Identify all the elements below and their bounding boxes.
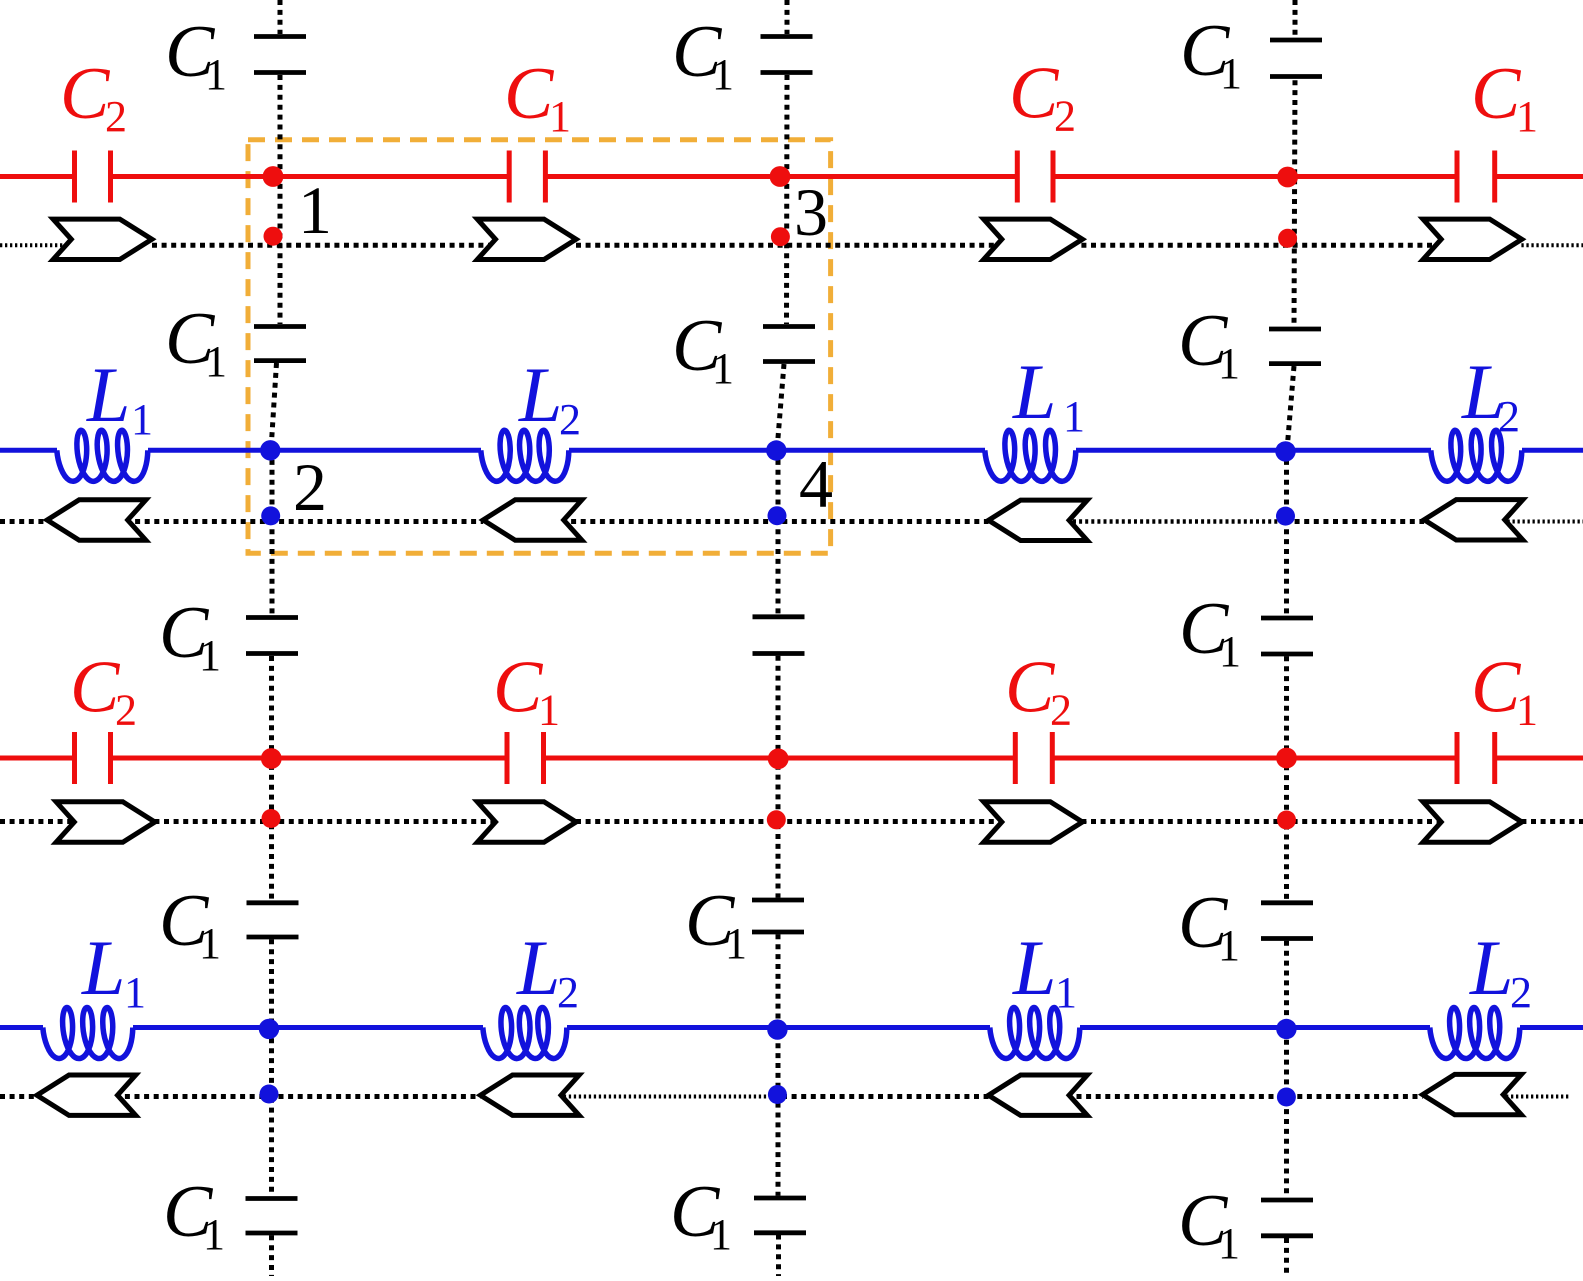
dotted wire row2 seg4 [1067, 519, 1285, 524]
wire blue row4 seg3 [567, 1025, 990, 1030]
dotted wire row4 seg1 [0, 1094, 37, 1099]
node col3 row2 lower [1276, 507, 1295, 526]
capacitor C1 row3 [507, 732, 544, 784]
wire red row3 seg4 [1052, 756, 1457, 761]
wire blue row2 seg4 [1076, 448, 1431, 453]
dotted column2 seg6 [776, 934, 781, 1195]
svg-text:C: C [493, 647, 544, 729]
dotted wire row4 seg6 [1501, 1095, 1570, 1099]
dotted column2 seg7 [776, 1235, 781, 1277]
svg-text:L: L [1469, 924, 1513, 1011]
inductor L2 row4 [1430, 1008, 1520, 1059]
node col2 row4 upper [767, 1019, 787, 1039]
node col1 row4 lower [260, 1085, 279, 1104]
svg-text:L: L [1012, 348, 1056, 435]
capacitor C1 col3 r2-3 [1261, 618, 1313, 654]
svg-text:1: 1 [124, 968, 146, 1017]
capacitor C1 col2 r2-3 [753, 617, 805, 654]
dotted wire row2 seg3 [562, 519, 989, 524]
dotted wire row1 seg2 [152, 243, 498, 248]
arrow left row2 #4 [1424, 500, 1523, 540]
node col1 row3 upper [261, 748, 282, 769]
wire red row3 seg2 [111, 756, 508, 761]
dotted column1 seg2 [278, 75, 283, 324]
dotted wire row3 seg5 [1521, 819, 1583, 824]
svg-text:1: 1 [1055, 968, 1077, 1017]
svg-text:1: 1 [1219, 627, 1241, 676]
value label C2 row3 #2 [1005, 647, 1072, 735]
svg-text:1: 1 [199, 631, 221, 680]
dotted column1 seg3 [271, 363, 277, 450]
value label L1 row4 #2 [1012, 924, 1077, 1017]
svg-text:1: 1 [538, 686, 560, 735]
dotted column1 seg4 [270, 450, 275, 615]
inductor L1 row2 [985, 430, 1076, 481]
value label C1 col3 bottom [1178, 1180, 1240, 1268]
value label C2 row1 #1 [60, 53, 127, 141]
capacitor C1 col2 bottom [754, 1198, 806, 1233]
node col3 row1 upper [1277, 167, 1298, 188]
value label C1 col1 top [165, 11, 227, 99]
value label C2 row3 #1 [70, 647, 137, 735]
capacitor C1 col3 r1-2 [1269, 329, 1321, 364]
node 4 upper [766, 440, 786, 460]
value label C1 row1 #2 [1471, 53, 1538, 141]
value label C1 col1 r1-2 [165, 298, 227, 386]
dotted wire row2 seg2 [126, 519, 484, 524]
dotted column3 seg2 [1294, 80, 1295, 327]
svg-text:1: 1 [1218, 339, 1240, 388]
value label C1 row3 #1 [493, 647, 560, 735]
dotted column2 seg3 [777, 364, 784, 450]
value label L2 row2 #1 [518, 351, 581, 444]
arrow right row1 #4 [1423, 219, 1522, 259]
dotted column1 seg7 [269, 1235, 274, 1276]
node col3 row3 upper [1276, 748, 1297, 769]
capacitor C1 col2 r1-2 [763, 327, 815, 362]
svg-text:L: L [81, 924, 125, 1011]
svg-text:1: 1 [205, 337, 227, 386]
svg-text:2: 2 [105, 92, 127, 141]
value label L2 row4 #1 [516, 924, 579, 1017]
wire blue row2 seg5 [1522, 448, 1583, 453]
inductor L2 row2 [1431, 430, 1522, 481]
node col2 row3 lower [767, 810, 786, 829]
dotted wire row3 seg2 [154, 819, 497, 824]
arrow left row4 #3 [989, 1075, 1088, 1115]
node col2 row4 lower [768, 1085, 787, 1104]
svg-text:2: 2 [115, 686, 137, 735]
node col3 row1 lower [1278, 229, 1297, 248]
svg-text:3: 3 [794, 174, 828, 250]
inductor L2 row4 [483, 1008, 567, 1059]
value label C1 col1 r3-4 [159, 880, 221, 968]
svg-text:C: C [1009, 53, 1060, 135]
capacitor C1 col3 bottom [1261, 1200, 1313, 1236]
arrow right row3 #1 [56, 802, 155, 842]
arrow right row1 #2 [477, 219, 576, 259]
capacitor C1 row1 [1457, 151, 1495, 203]
dotted column1 seg5 [269, 656, 274, 901]
wire blue row4 seg2 [133, 1025, 483, 1030]
capacitor C2 row3 [1015, 732, 1052, 784]
capacitor C1 col1 r3-4 [247, 903, 299, 937]
svg-text:1: 1 [712, 50, 734, 99]
arrow left row4 #1 [37, 1075, 136, 1115]
svg-text:1: 1 [205, 50, 227, 99]
node col3 row2 upper [1275, 441, 1295, 461]
node 2 lower [261, 506, 280, 525]
svg-text:1: 1 [199, 919, 221, 968]
svg-text:C: C [1471, 53, 1522, 135]
svg-text:1: 1 [1516, 92, 1538, 141]
dotted wire row4 seg5 [1067, 1094, 1423, 1099]
svg-text:1: 1 [131, 395, 153, 444]
svg-text:2: 2 [1054, 92, 1076, 141]
capacitor C1 col1 top [254, 37, 306, 73]
wire blue row2 seg1 [0, 448, 57, 453]
unit cell boundary (dashed box) [248, 140, 831, 554]
value label C1 col3 r1-2 [1178, 300, 1240, 388]
svg-text:C: C [504, 53, 555, 135]
wire blue row4 seg5 [1520, 1025, 1583, 1030]
dotted column2 seg2 [784, 75, 790, 324]
dotted column3 seg5 [1284, 656, 1289, 900]
node 2 upper [260, 440, 280, 460]
svg-text:1: 1 [1063, 392, 1085, 441]
svg-text:L: L [86, 351, 130, 438]
svg-text:2: 2 [1050, 686, 1072, 735]
wire red row3 seg1 [0, 756, 75, 761]
dotted wire row3 seg3 [576, 819, 1004, 824]
node 1 lower [264, 227, 283, 246]
node col3 row3 lower [1277, 811, 1296, 830]
value label C1 col2 r1-2 [672, 305, 734, 393]
value label C1 row3 #2 [1471, 647, 1538, 735]
svg-text:1: 1 [710, 1210, 732, 1259]
value label C1 col2 bottom [670, 1171, 732, 1259]
value label L1 row4 #1 [81, 924, 146, 1017]
dotted wire row4 seg4 [782, 1094, 989, 1099]
wire blue row2 seg2 [148, 448, 481, 453]
wire red row1 seg3 [545, 174, 1017, 179]
wire red row1 seg1 [0, 174, 75, 179]
wire red row3 seg3 [544, 756, 1016, 761]
value label C1 row1 #1 [504, 53, 571, 141]
inductor L2 row2 [481, 430, 569, 481]
arrow left row2 #1 [47, 500, 146, 540]
arrow left row2 #3 [989, 500, 1088, 540]
node col1 row3 lower [262, 809, 281, 828]
value label C1 col1 r2-3 [159, 592, 221, 680]
dotted column3 seg4 [1284, 450, 1289, 616]
svg-text:C: C [60, 53, 111, 135]
svg-text:1: 1 [549, 92, 571, 141]
capacitor C2 row1 [1017, 151, 1053, 203]
svg-text:2: 2 [293, 449, 327, 525]
svg-text:C: C [70, 647, 121, 729]
value label L2 row4 #2 [1469, 924, 1532, 1017]
value label L2 row2 #2 [1461, 348, 1520, 441]
wire blue row2 seg3 [569, 448, 985, 453]
value label C1 col1 bottom [163, 1171, 225, 1259]
node 3 lower [771, 227, 790, 246]
capacitor C1 col2 r3-4 [752, 900, 804, 932]
value label C1 col2 top [672, 11, 734, 99]
svg-text:C: C [1005, 647, 1056, 729]
inductor L1 row4 [990, 1008, 1080, 1059]
capacitor C2 row1 [75, 151, 111, 203]
svg-text:L: L [516, 924, 560, 1011]
svg-text:1: 1 [1218, 921, 1240, 970]
wire blue row4 seg4 [1080, 1025, 1430, 1030]
svg-text:1: 1 [1218, 1219, 1240, 1268]
arrow left row2 #2 [483, 500, 582, 540]
arrow right row1 #1 [53, 219, 152, 259]
wire red row1 seg4 [1053, 174, 1457, 179]
arrow left row4 #2 [480, 1075, 579, 1115]
node 1 upper [263, 166, 284, 187]
capacitor C1 row3 [1457, 732, 1495, 784]
dotted wire row1 seg3 [576, 243, 1004, 248]
node col2 row3 upper [768, 748, 789, 769]
wire red row3 seg5 [1495, 756, 1583, 761]
wire red row1 seg2 [111, 174, 510, 179]
arrow right row3 #3 [984, 802, 1083, 842]
dotted wire row2 seg5 [1285, 519, 1424, 524]
dotted wire row3 seg1 [0, 819, 77, 824]
svg-text:1: 1 [203, 1210, 225, 1259]
wire blue row4 seg1 [0, 1025, 43, 1030]
dotted column1 seg1 [278, 0, 283, 34]
svg-text:2: 2 [1510, 968, 1532, 1017]
dotted wire row2 seg1 [0, 519, 47, 524]
dotted column3 seg1 [1293, 0, 1298, 38]
dotted column2 seg5 [776, 656, 781, 898]
arrow right row3 #2 [477, 802, 576, 842]
node col3 row4 upper [1276, 1019, 1296, 1039]
node col1 row4 upper [259, 1019, 279, 1039]
svg-text:1: 1 [1220, 49, 1242, 98]
wire red row1 seg5 [1495, 174, 1583, 179]
node 4 lower [768, 506, 787, 525]
inductor L1 row4 [43, 1008, 133, 1059]
svg-text:2: 2 [557, 968, 579, 1017]
dotted wire row3 seg4 [1081, 819, 1443, 824]
inductor L1 row2 [57, 430, 148, 481]
capacitor C1 col3 r3-4 [1261, 903, 1313, 939]
dotted column3 seg7 [1284, 1238, 1289, 1276]
arrow right row3 #4 [1423, 802, 1522, 842]
value label C1 col3 top [1180, 10, 1242, 98]
dotted wire row1 seg5 [1521, 243, 1583, 247]
dotted wire row1 seg4 [1081, 243, 1443, 248]
value label C1 col3 r2-3 [1179, 588, 1241, 676]
arrow left row4 #4 [1423, 1074, 1522, 1114]
capacitor C1 col1 r2-3 [246, 618, 298, 654]
arrow right row1 #3 [984, 219, 1083, 259]
dotted wire row4 seg2 [115, 1094, 480, 1099]
value label C1 col3 r3-4 [1178, 882, 1240, 970]
svg-text:1: 1 [725, 919, 747, 968]
capacitor C1 col2 top [761, 37, 813, 73]
svg-text:L: L [1012, 924, 1056, 1011]
svg-text:2: 2 [559, 395, 581, 444]
capacitor C2 row3 [75, 732, 111, 784]
dotted column2 seg4 [776, 450, 781, 615]
dotted column3 seg3 [1287, 366, 1294, 450]
capacitor C1 row1 [509, 151, 545, 203]
dotted column1 seg6 [269, 939, 274, 1196]
node col3 row4 lower [1277, 1088, 1296, 1107]
dotted column3 seg6 [1284, 941, 1289, 1198]
dotted wire row1 seg1 [0, 243, 74, 247]
value label C1 col2 r3-4 [685, 880, 747, 968]
capacitor C1 col3 top [1270, 40, 1322, 77]
dotted column2 seg1 [785, 0, 790, 34]
dotted wire row2 seg6 [1503, 520, 1583, 524]
dotted wire row4 seg3 [559, 1095, 772, 1099]
value label L1 row2 #2 [1012, 348, 1085, 441]
node 3 upper [770, 166, 791, 187]
svg-text:L: L [518, 351, 562, 438]
svg-text:1: 1 [712, 344, 734, 393]
value label L1 row2 #1 [86, 351, 153, 444]
svg-text:1: 1 [298, 172, 332, 248]
value label C2 row1 #2 [1009, 53, 1076, 141]
svg-text:2: 2 [1498, 392, 1520, 441]
svg-text:C: C [1471, 647, 1522, 729]
capacitor C1 col1 bottom [246, 1199, 298, 1234]
svg-text:1: 1 [1516, 686, 1538, 735]
capacitor C1 col1 r1-2 [254, 327, 306, 361]
svg-text:4: 4 [799, 446, 833, 522]
